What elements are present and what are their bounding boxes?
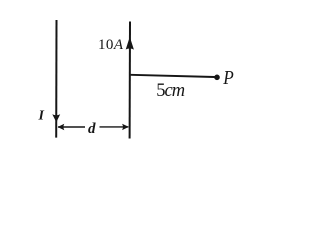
wire D1 (dimension line left segment) [58, 126, 85, 128]
arrow A4 (right arrowhead of d dimension line) [122, 124, 129, 130]
wire W1 (left vertical wire carrying current I) [55, 20, 57, 138]
arrow A3 (left arrowhead of d dimension line) [58, 124, 65, 130]
wire W3 (horizontal line from wire W2 to point P) [131, 75, 215, 77]
wire D2 (dimension line right segment) [100, 126, 129, 128]
node P (point P dot) [214, 75, 220, 81]
svg-text:I: I [38, 109, 45, 124]
svg-text:P: P [222, 67, 234, 90]
wire W2 (middle vertical wire carrying 10A) [129, 22, 131, 139]
svg-text:10A: 10A [98, 37, 124, 53]
svg-text:5cm: 5cm [156, 81, 184, 101]
arrow A1 (downward current arrow on left wire) [52, 114, 60, 122]
svg-text:d: d [88, 121, 96, 137]
arrow A2 (upward current arrow on middle wire) [126, 37, 134, 50]
